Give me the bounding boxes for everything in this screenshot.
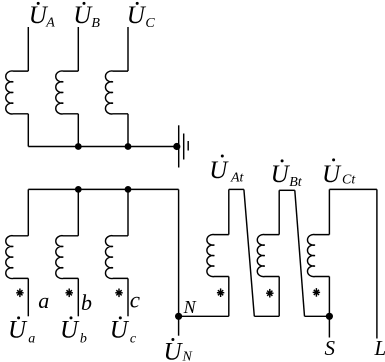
svg-text:Ct: Ct — [342, 173, 356, 188]
label Uc — [110, 316, 137, 346]
junction phase C on neutral bus — [125, 143, 132, 150]
svg-text:At: At — [230, 170, 245, 185]
wire winding b terminal — [77, 278, 79, 316]
wire Ct bottom link — [305, 315, 330, 317]
wire phase C lead — [127, 27, 129, 71]
wire neutral terminal stub — [178, 316, 180, 335]
polarity mark winding c — [115, 289, 122, 298]
svg-text:N: N — [183, 297, 197, 317]
wire star bus to winding a — [27, 189, 29, 235]
label UC phase C voltage — [127, 2, 156, 31]
svg-text:Bt: Bt — [289, 175, 303, 190]
wire S terminal stub — [328, 316, 330, 337]
svg-text:U: U — [60, 317, 80, 344]
svg-text:C: C — [145, 16, 155, 31]
label UCt — [322, 158, 356, 187]
svg-text:a: a — [38, 288, 49, 313]
wire winding Ct to top — [328, 189, 330, 234]
wire winding c terminal — [127, 278, 129, 316]
wire phase B lead — [77, 27, 79, 71]
wire node N to winding At — [179, 315, 229, 317]
wire slant Bt top to Ct bottom — [295, 190, 305, 316]
junction at ground connection — [173, 143, 180, 150]
secondary winding a — [6, 236, 29, 279]
svg-text:c: c — [130, 332, 137, 347]
label UB phase B voltage — [73, 2, 100, 31]
wire phase A to neutral bus — [27, 114, 29, 147]
wire L terminal drop — [376, 189, 378, 338]
svg-text:a: a — [28, 332, 35, 347]
wire star bus to winding b — [77, 189, 79, 235]
svg-text:U: U — [322, 161, 342, 188]
junction phase B on neutral bus — [75, 143, 82, 150]
secondary winding b — [56, 236, 79, 279]
polarity mark winding At — [217, 288, 224, 297]
tertiary winding At — [207, 234, 229, 276]
wire winding a terminal — [27, 278, 29, 316]
wire phase C to neutral bus — [127, 114, 129, 147]
svg-text:L: L — [374, 336, 385, 360]
wire Bt top terminal — [279, 189, 295, 191]
svg-text:A: A — [45, 16, 55, 31]
label UA phase A voltage — [29, 2, 56, 31]
wire winding Bt to top — [278, 190, 280, 234]
svg-text:B: B — [91, 16, 100, 31]
svg-text:U: U — [127, 2, 147, 29]
node N junction — [175, 313, 182, 320]
wire At top terminal — [229, 188, 244, 190]
label UAt — [209, 155, 244, 186]
wire star bus to node N — [178, 189, 180, 316]
wire secondary star bus — [28, 188, 178, 190]
wire winding At rise — [228, 277, 230, 317]
wire phase A lead — [27, 27, 29, 71]
secondary winding c — [105, 236, 128, 279]
svg-text:U: U — [8, 317, 28, 344]
junction phase c on star bus — [125, 186, 132, 193]
primary winding phase A — [6, 71, 29, 114]
svg-text:N: N — [182, 350, 193, 362]
svg-text:U: U — [110, 317, 130, 344]
wire winding Ct rise — [328, 277, 330, 317]
tertiary winding Ct — [307, 234, 329, 276]
svg-text:c: c — [130, 287, 140, 312]
tertiary winding Bt — [257, 234, 279, 276]
polarity mark winding a — [16, 289, 23, 298]
wire Ct top terminal — [329, 188, 377, 190]
primary winding phase B — [56, 71, 79, 114]
ground symbol — [179, 125, 189, 167]
wire primary neutral bus — [28, 146, 177, 148]
wire winding At to top — [228, 189, 230, 234]
svg-text:U: U — [209, 157, 229, 184]
wire phase B to neutral bus — [77, 114, 79, 147]
wire star bus to winding c — [127, 189, 129, 235]
svg-text:U: U — [271, 161, 291, 188]
svg-text:b: b — [80, 332, 87, 347]
wire winding Bt rise — [278, 277, 280, 317]
polarity mark winding Bt — [266, 289, 273, 298]
label Ua — [8, 316, 35, 346]
primary winding phase C — [105, 71, 128, 114]
wire slant At top to Bt bottom — [244, 189, 254, 316]
svg-text:U: U — [164, 339, 184, 362]
svg-text:U: U — [73, 2, 93, 29]
node S junction — [326, 313, 333, 320]
label Ub — [60, 316, 87, 346]
polarity mark winding Ct — [313, 288, 320, 297]
label UN — [164, 338, 193, 362]
wire Bt bottom link — [254, 315, 279, 317]
polarity mark winding b — [66, 289, 73, 298]
svg-text:b: b — [81, 290, 92, 315]
junction phase b on star bus — [75, 186, 82, 193]
svg-text:S: S — [325, 336, 336, 360]
label UBt — [271, 159, 303, 190]
